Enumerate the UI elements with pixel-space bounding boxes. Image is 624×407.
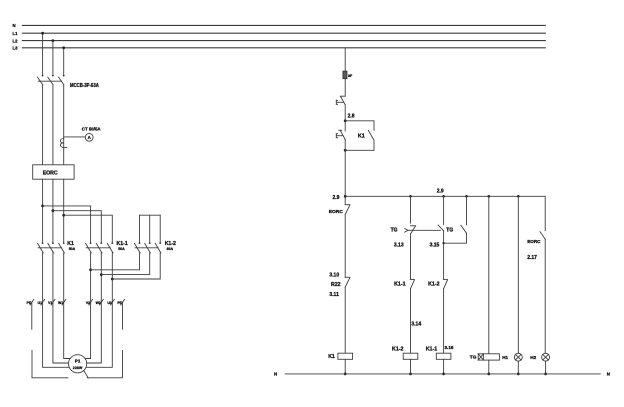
svg-text:L1: L1 bbox=[13, 31, 19, 36]
node branchC join bbox=[442, 242, 444, 244]
wire EORC pole3 down bbox=[63, 179, 65, 243]
wire bridge to K1-2 pole2 bbox=[149, 215, 151, 243]
node rail K1-2 bbox=[409, 373, 412, 376]
node L1 tap bbox=[41, 32, 44, 35]
svg-text:30A: 30A bbox=[167, 247, 174, 251]
node rail TG bbox=[487, 373, 490, 376]
svg-text:2.8: 2.8 bbox=[348, 113, 355, 119]
node branch1 bbox=[409, 195, 412, 198]
node branch TG coil bbox=[488, 195, 491, 198]
svg-text:V2: V2 bbox=[86, 301, 90, 305]
node rail H1 bbox=[517, 373, 520, 376]
svg-text:2.17: 2.17 bbox=[527, 255, 537, 261]
wire K1-2 pole2 to link2 bbox=[101, 253, 149, 275]
coil K1 bbox=[338, 353, 353, 359]
svg-text:W2: W2 bbox=[96, 301, 101, 305]
svg-text:U1: U1 bbox=[38, 301, 42, 305]
contactor K1 pole2 bbox=[48, 242, 54, 253]
node 2.9 bbox=[344, 195, 347, 198]
svg-text:PE: PE bbox=[27, 301, 32, 305]
contact K1 aux NO bbox=[368, 130, 374, 140]
linkage TG arrow bbox=[405, 229, 441, 233]
svg-text:K1: K1 bbox=[358, 133, 365, 139]
contactor K1-1 pole2 bbox=[96, 242, 102, 253]
wire branch H1 bbox=[517, 196, 519, 353]
node delta link1 bbox=[89, 268, 92, 271]
contact TG NO branchC bbox=[461, 225, 467, 233]
svg-text:EORC: EORC bbox=[329, 209, 344, 215]
wire branch2 lower bbox=[443, 289, 445, 354]
wire branch TG coil bbox=[488, 196, 490, 353]
wire PE right stub bbox=[122, 302, 124, 329]
wire stop to start bbox=[344, 105, 346, 131]
wire branchC top bbox=[466, 196, 468, 225]
svg-text:3.13: 3.13 bbox=[394, 243, 404, 249]
svg-text:V1: V1 bbox=[48, 301, 52, 305]
svg-text:3.16: 3.16 bbox=[445, 345, 454, 350]
wire bridge to K1-2 pole3 bbox=[159, 215, 161, 243]
wire K1 aux return bbox=[345, 140, 374, 150]
svg-text:50A: 50A bbox=[69, 247, 76, 251]
svg-text:N: N bbox=[607, 372, 610, 377]
wire breaker pole3 down bbox=[63, 85, 65, 165]
wire K1-2 pole3 to link3 bbox=[112, 253, 160, 279]
breaker Q1 MCCB pole2 bbox=[48, 75, 54, 85]
svg-text:K1-2: K1-2 bbox=[392, 347, 404, 353]
motor P1 bbox=[69, 355, 89, 378]
terminal V2 bbox=[89, 299, 93, 305]
contact K1-2 aux bbox=[443, 279, 447, 288]
node pole2 branch bbox=[52, 209, 55, 212]
contact EORC NC bbox=[345, 205, 350, 215]
node L3 tap bbox=[62, 46, 65, 49]
svg-text:TG: TG bbox=[446, 227, 453, 233]
wire branch1 top bbox=[410, 196, 412, 223]
wire branch2 top bbox=[443, 196, 445, 224]
contactor K1-1 pole3 bbox=[107, 242, 113, 253]
wire K1 pole3 to motor W1 bbox=[64, 253, 71, 359]
wire branch1 middle bbox=[410, 234, 412, 279]
wire EORC contact to R22 bbox=[344, 215, 346, 278]
contact EORC NO bbox=[540, 232, 545, 239]
contactor K1 pole1 bbox=[38, 242, 44, 253]
wire branch2 middle bbox=[443, 231, 445, 279]
wire K1-2 coil to rail bbox=[410, 359, 412, 374]
breaker Q1 tie bar bbox=[38, 80, 62, 82]
svg-text:2.9: 2.9 bbox=[333, 195, 340, 201]
node rail K1 bbox=[344, 373, 347, 376]
node delta link2 bbox=[100, 273, 103, 276]
wire TG to rail bbox=[488, 360, 490, 374]
wire branch pole3 to K1-1 pole3 bbox=[64, 215, 113, 243]
pushbutton stop NC bbox=[336, 96, 345, 105]
relay EORC overload box bbox=[33, 165, 74, 179]
star bridge bar K1-2 bbox=[140, 214, 161, 216]
wire K1-1 coil to rail bbox=[443, 359, 445, 374]
contactor K1-1 pole1 bbox=[86, 242, 92, 253]
wire EORC pole1 down bbox=[42, 179, 44, 243]
contact R22 NC bbox=[345, 277, 350, 287]
bus L3 bbox=[22, 47, 545, 49]
contactor K1-2 tie bar bbox=[135, 247, 158, 249]
wire K1 coil to rail bbox=[344, 359, 346, 374]
terminal U1 bbox=[41, 299, 45, 305]
svg-text:3.15: 3.15 bbox=[430, 243, 440, 249]
svg-text:50A: 50A bbox=[118, 247, 125, 251]
node branch2 bbox=[442, 195, 445, 198]
svg-text:2.9: 2.9 bbox=[437, 189, 444, 195]
wire branchC elbow bbox=[444, 233, 467, 243]
svg-text:K1-1: K1-1 bbox=[426, 347, 438, 353]
breaker Q1 MCCB pole1 bbox=[38, 75, 44, 85]
node rail H2 bbox=[544, 373, 547, 376]
node delta link3 bbox=[111, 278, 114, 281]
svg-text:TG: TG bbox=[470, 355, 477, 361]
wire bridge to K1-2 pole1 bbox=[139, 215, 141, 243]
node branch H1 bbox=[517, 195, 520, 198]
svg-text:W1: W1 bbox=[58, 301, 63, 305]
wire PE left stub bbox=[31, 302, 33, 329]
lamp H1 bbox=[514, 353, 522, 361]
wire top branch line 2.9 bbox=[345, 195, 545, 197]
lamp H2 bbox=[542, 353, 550, 361]
svg-text:EORC: EORC bbox=[527, 239, 541, 244]
bus L2 bbox=[22, 40, 545, 42]
timer TG bbox=[478, 354, 499, 360]
svg-text:H2: H2 bbox=[530, 355, 536, 360]
terminal PE left bbox=[30, 299, 34, 305]
svg-text:3.14: 3.14 bbox=[411, 321, 421, 327]
svg-text:PE: PE bbox=[117, 301, 122, 305]
node branchC bbox=[465, 195, 468, 198]
svg-text:K1-1: K1-1 bbox=[394, 281, 406, 287]
pushbutton start NO bbox=[336, 130, 345, 140]
svg-text:N: N bbox=[13, 23, 16, 28]
contactor K1-2 pole2 bbox=[145, 242, 151, 253]
wire tap L1 to breaker pole1 bbox=[42, 33, 44, 75]
wire breaker pole1 down bbox=[42, 85, 44, 165]
node pole1 branch bbox=[41, 205, 44, 208]
wire K1-1 pole2 to motor W2 bbox=[87, 253, 102, 363]
svg-text:3F: 3F bbox=[348, 74, 353, 78]
svg-text:L3: L3 bbox=[13, 46, 19, 51]
svg-text:EORC: EORC bbox=[43, 170, 58, 176]
wire K1 pole2 to motor V1 bbox=[53, 253, 69, 363]
contact TG changeover blade bbox=[438, 225, 443, 231]
wire EORC NO to H2 bbox=[544, 239, 546, 353]
wire branch1 lower bbox=[410, 289, 412, 354]
bracket motor box left bbox=[32, 351, 68, 378]
wire K1-2 pole1 to link1 bbox=[91, 253, 140, 270]
node L2 tap bbox=[52, 39, 55, 42]
wire branch to K1 aux bbox=[345, 121, 374, 131]
svg-text:CT 50/5A: CT 50/5A bbox=[82, 127, 102, 132]
wire K1-1 pole3 to motor U2 bbox=[86, 253, 112, 367]
contact K1-1 aux bbox=[410, 279, 414, 288]
wire branch pole1 to K1-1 pole1 bbox=[43, 206, 91, 243]
contactor K1 pole3 bbox=[59, 242, 65, 253]
node 2.8 bbox=[344, 119, 347, 122]
breaker Q1 MCCB pole3 bbox=[59, 75, 65, 85]
coil K1-2 bbox=[403, 353, 418, 359]
wire fuse to stop button bbox=[344, 79, 346, 97]
terminal W1 bbox=[62, 299, 66, 305]
node pole3 branch bbox=[62, 214, 65, 217]
contactor K1-2 pole1 bbox=[135, 242, 141, 253]
svg-text:MCCB-3P-63A: MCCB-3P-63A bbox=[70, 83, 99, 89]
wire R22 to K1 coil bbox=[344, 287, 346, 353]
wire CT to ammeter bbox=[64, 136, 86, 138]
contact TG NC branch1 bbox=[411, 226, 416, 234]
node hold return bbox=[344, 149, 347, 152]
wire start down to node 2.9 bbox=[344, 140, 346, 205]
terminal V1 bbox=[51, 299, 55, 305]
svg-text:L2: L2 bbox=[13, 38, 19, 43]
svg-text:K1-2: K1-2 bbox=[428, 281, 440, 287]
current transformer CT bbox=[60, 139, 66, 148]
wire H2 to rail bbox=[545, 361, 547, 374]
wire H1 to rail bbox=[517, 361, 519, 374]
wire EORC pole2 down bbox=[52, 179, 54, 243]
svg-text:R22: R22 bbox=[331, 282, 341, 288]
wire branch pole2 to K1-1 pole2 bbox=[53, 211, 101, 243]
svg-text:TG: TG bbox=[391, 227, 398, 233]
rail N bottom bbox=[285, 373, 600, 375]
svg-text:3.11: 3.11 bbox=[329, 292, 339, 298]
bus N bbox=[22, 24, 545, 26]
ammeter A bbox=[85, 133, 93, 141]
coil K1-1 bbox=[436, 353, 451, 359]
fuse F bbox=[343, 71, 347, 79]
svg-text:U2: U2 bbox=[107, 301, 111, 305]
contactor K1-2 pole3 bbox=[155, 242, 161, 253]
svg-text:K1: K1 bbox=[328, 354, 335, 360]
terminal U2 bbox=[111, 299, 115, 305]
wire control tap from L3 bbox=[344, 48, 346, 71]
svg-text:H1: H1 bbox=[502, 355, 508, 360]
wire tap L3 to breaker pole3 bbox=[63, 48, 65, 76]
svg-text:3.10: 3.10 bbox=[329, 273, 339, 279]
wire K1-1 pole1 to motor V2 bbox=[85, 253, 91, 359]
wire tap L2 to breaker pole2 bbox=[52, 41, 54, 76]
svg-text:22kW: 22kW bbox=[73, 366, 83, 370]
contactor K1 tie bar bbox=[38, 247, 62, 249]
node rail K1-1 bbox=[442, 373, 445, 376]
bracket motor box right bbox=[87, 351, 122, 378]
contactor K1-1 tie bar bbox=[86, 247, 110, 249]
wire K1 pole1 to motor U1 bbox=[43, 253, 70, 367]
svg-text:P1: P1 bbox=[75, 358, 81, 363]
terminal W2 bbox=[100, 299, 104, 305]
wire branch H2 top bbox=[544, 196, 546, 230]
terminal PE right bbox=[121, 299, 125, 305]
wire breaker pole2 down bbox=[52, 85, 54, 165]
svg-text:N: N bbox=[274, 372, 277, 377]
bus L1 bbox=[22, 32, 545, 34]
